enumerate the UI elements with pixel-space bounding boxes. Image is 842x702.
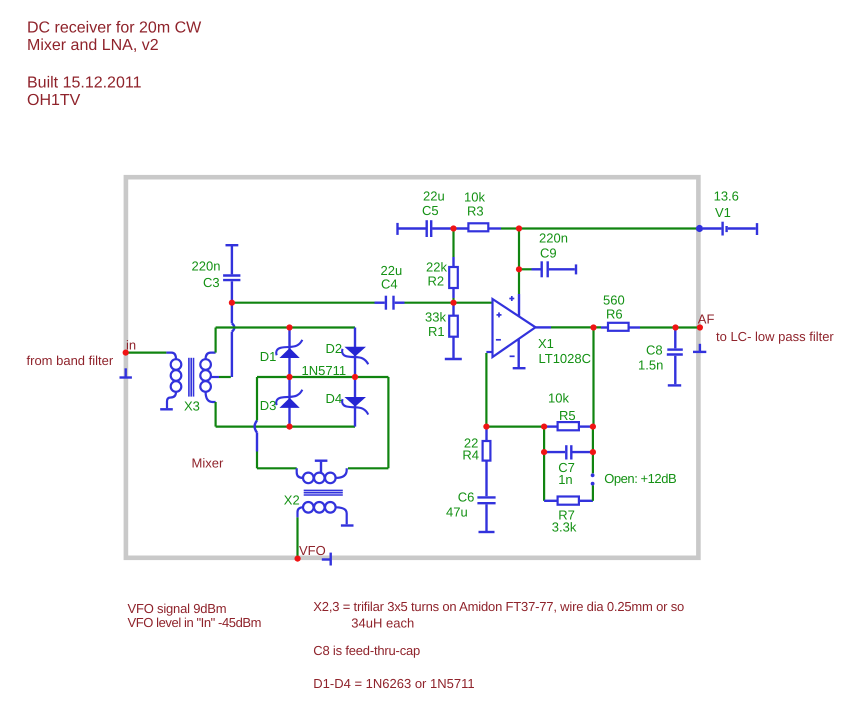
svg-text:X1: X1 xyxy=(538,336,554,351)
svg-text:C3: C3 xyxy=(203,275,220,290)
wire mixer middle-left leg down with hop xyxy=(255,377,297,468)
svg-text:R6: R6 xyxy=(606,307,623,322)
node mixer mid D1 D3 xyxy=(286,374,292,380)
wire mixer middle xyxy=(257,376,388,378)
node mixer mid D2 D4 xyxy=(352,374,358,380)
node rail C5 R3 xyxy=(450,225,456,231)
svg-text:VFO signal 9dBm: VFO signal 9dBm xyxy=(128,601,227,616)
node R2 R1 input xyxy=(450,300,456,306)
op-amp V- mark xyxy=(510,355,515,357)
svg-text:22k: 22k xyxy=(426,260,447,275)
svg-text:VFO: VFO xyxy=(299,543,326,558)
wire diode column D2 D4 xyxy=(354,328,356,427)
svg-text:13.6: 13.6 xyxy=(714,189,739,204)
wire output node down to feedback xyxy=(592,330,594,427)
transformer X2 primary winding xyxy=(297,468,347,483)
resistor R3 xyxy=(468,223,501,231)
capacitor C4 xyxy=(386,296,405,310)
ground below X2 secondary right xyxy=(341,524,354,526)
capacitor C7 xyxy=(546,445,591,459)
node in (red dot) xyxy=(123,350,129,356)
svg-text:D1: D1 xyxy=(260,349,277,364)
svg-text:10k: 10k xyxy=(548,390,569,405)
node C9 V+ xyxy=(516,266,522,272)
resistor R5 xyxy=(544,422,593,430)
svg-text:C4: C4 xyxy=(381,277,398,292)
wire -in feedback riser xyxy=(485,353,487,427)
svg-text:C9: C9 xyxy=(540,246,557,261)
svg-text:AF: AF xyxy=(698,312,715,327)
svg-text:1N5711: 1N5711 xyxy=(302,363,347,378)
transformer X3 primary winding xyxy=(166,353,181,409)
wire X3 secondary top riser xyxy=(215,328,217,353)
svg-text:in: in xyxy=(126,338,136,353)
node feedback -in xyxy=(483,424,489,430)
svg-text:220n: 220n xyxy=(192,259,221,274)
open jumper pins xyxy=(591,473,595,485)
op-amp V+ pin xyxy=(518,294,520,316)
node feedback R5 right xyxy=(590,424,596,430)
op-amp V- pin xyxy=(518,339,520,367)
svg-text:DC receiver for 20m CW: DC receiver for 20m CW xyxy=(27,19,202,36)
svg-text:D4: D4 xyxy=(326,391,343,406)
svg-text:C6: C6 xyxy=(458,490,475,505)
svg-text:1n: 1n xyxy=(558,472,572,487)
svg-text:C8: C8 xyxy=(646,343,663,358)
wire R5 right leg down to C7 xyxy=(592,429,594,450)
svg-text:C8 is feed-thru-cap: C8 is feed-thru-cap xyxy=(313,643,420,658)
svg-text:22u: 22u xyxy=(423,189,445,204)
svg-text:X3: X3 xyxy=(184,399,200,414)
capacitor C9 xyxy=(521,261,576,277)
resistor R6 xyxy=(601,323,640,331)
diode D3 xyxy=(276,390,302,408)
svg-text:C5: C5 xyxy=(422,203,439,218)
resistor R4 xyxy=(483,428,491,496)
svg-text:LT1028C: LT1028C xyxy=(539,351,592,366)
svg-text:220n: 220n xyxy=(539,231,568,246)
capacitor C3 xyxy=(223,245,240,303)
wire C3 node down with hop over mixer top wire xyxy=(232,304,234,377)
shield box border xyxy=(126,177,699,558)
svg-text:Mixer and LNA, v2: Mixer and LNA, v2 xyxy=(27,37,159,54)
node AF border xyxy=(697,324,703,330)
ground bar above C3 xyxy=(226,244,239,246)
svg-text:to LC- low pass filter: to LC- low pass filter xyxy=(716,329,834,344)
wire C7 right node down to open jumper xyxy=(592,454,594,473)
wire V+ branch xyxy=(518,229,520,295)
transformer X3 core xyxy=(189,358,194,397)
svg-text:R2: R2 xyxy=(428,274,445,289)
node feedback R5 left xyxy=(541,424,547,430)
node mixer top D1 xyxy=(286,324,292,330)
svg-text:R4: R4 xyxy=(462,447,479,462)
svg-text:33k: 33k xyxy=(425,310,446,325)
battery V1 xyxy=(703,222,757,236)
diode D1 xyxy=(276,340,302,358)
node mixer bottom D3 xyxy=(286,424,292,430)
node V1 (blue dot on border) xyxy=(696,225,703,232)
svg-text:3.3k: 3.3k xyxy=(552,520,577,535)
resistor R1 xyxy=(449,304,458,358)
X2 center tap stub and bar xyxy=(315,461,328,473)
wire R6 to AF xyxy=(640,326,698,328)
node AF C8 xyxy=(672,324,678,330)
wire X3 center tap to C3 node xyxy=(219,376,231,378)
wire C7 left node down to R7 xyxy=(543,454,545,501)
svg-text:10k: 10k xyxy=(464,190,485,205)
svg-text:OH1TV: OH1TV xyxy=(27,92,81,109)
node C3 junction xyxy=(229,300,235,306)
svg-text:V1: V1 xyxy=(715,205,731,220)
VFO terminal stub xyxy=(322,553,331,566)
wire R2 branch xyxy=(452,229,454,268)
svg-text:47u: 47u xyxy=(446,505,468,520)
wire C4 to op-amp +in xyxy=(405,302,493,304)
svg-text:from band filter: from band filter xyxy=(27,353,114,368)
wire feedback row xyxy=(486,426,544,428)
wire rail to V1 xyxy=(501,227,697,229)
svg-text:X2: X2 xyxy=(284,493,300,508)
svg-text:Mixer: Mixer xyxy=(192,456,224,471)
node output R6 xyxy=(590,324,596,330)
wire mixer middle-right leg down xyxy=(348,377,388,468)
transformer X2 secondary winding xyxy=(298,502,347,524)
wire mixer bottom xyxy=(216,426,355,428)
op-amp U1 X1 LT1028C triangle xyxy=(493,299,536,357)
wire R5 left leg down to C7 xyxy=(543,429,545,450)
node VFO (red dot) xyxy=(295,556,301,562)
svg-text:D2: D2 xyxy=(326,341,343,356)
svg-text:R5: R5 xyxy=(559,408,576,423)
capacitor C8 xyxy=(667,330,683,385)
wire R7 right leg up to open jumper xyxy=(592,485,594,501)
resistor R7 xyxy=(544,497,593,505)
svg-text:D1-D4 = 1N6263 or 1N5711: D1-D4 = 1N6263 or 1N5711 xyxy=(313,676,474,691)
supply terminal (top rail left) xyxy=(398,223,426,235)
svg-text:X2,3 = trifilar 3x5 turns on A: X2,3 = trifilar 3x5 turns on Amidon FT37… xyxy=(313,599,684,614)
svg-text:Open: +12dB: Open: +12dB xyxy=(604,471,676,486)
svg-text:VFO level in "In" -45dBm: VFO level in "In" -45dBm xyxy=(128,615,262,630)
node C7 right xyxy=(590,449,596,455)
ground below R1 xyxy=(445,358,462,360)
chassis ground at AF border xyxy=(693,344,706,352)
diode D4 xyxy=(342,398,368,415)
svg-text:R1: R1 xyxy=(428,324,445,339)
capacitor C5 xyxy=(427,220,469,237)
op-amp V+ mark xyxy=(509,296,514,301)
chassis ground at in border xyxy=(120,368,132,377)
ground below C6 xyxy=(479,531,495,533)
ground below C8 xyxy=(668,384,681,386)
svg-text:Built 15.12.2011: Built 15.12.2011 xyxy=(27,75,142,92)
svg-text:560: 560 xyxy=(603,293,625,308)
node C7 left xyxy=(541,449,547,455)
op-amp - input mark xyxy=(496,339,501,341)
diode D2 xyxy=(342,347,368,364)
ground bar below op-amp V- xyxy=(513,367,526,369)
transformer X2 core xyxy=(304,490,343,495)
op-amp -in pin stub xyxy=(486,351,492,353)
wire X3 secondary bottom riser xyxy=(215,402,217,427)
svg-text:R3: R3 xyxy=(467,204,484,219)
op-amp + input mark xyxy=(497,312,502,317)
ground below X3 primary xyxy=(160,408,173,410)
svg-text:1.5n: 1.5n xyxy=(638,358,663,373)
wire op-amp output xyxy=(536,326,602,328)
wire mixer top xyxy=(216,326,355,328)
wire X2 secondary to VFO xyxy=(296,517,298,556)
svg-text:D3: D3 xyxy=(260,398,277,413)
wire diode column D1 D3 xyxy=(288,328,290,427)
wire in to X3 xyxy=(127,352,166,354)
wire C3 node to C4 xyxy=(234,302,385,304)
resistor R2 xyxy=(449,267,458,303)
svg-text:34uH each: 34uH each xyxy=(351,615,414,630)
capacitor C6 xyxy=(477,497,495,531)
transformer X3 secondary winding xyxy=(200,353,219,402)
node rail R3 V+ xyxy=(516,225,522,231)
